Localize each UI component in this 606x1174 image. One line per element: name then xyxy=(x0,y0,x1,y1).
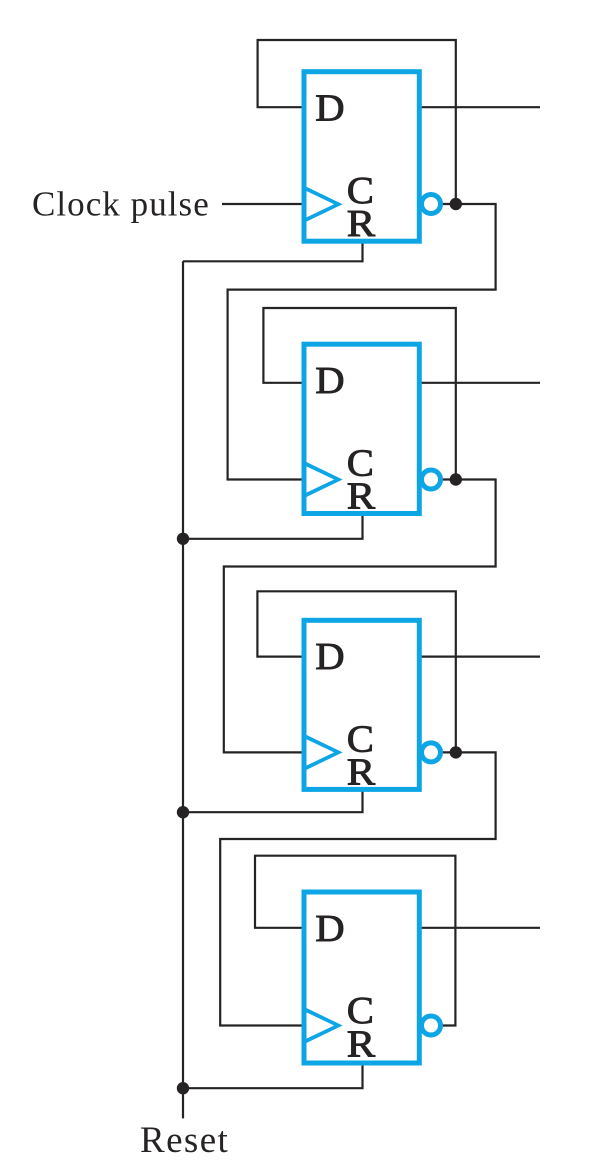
U4 Qbar inversion bubble xyxy=(422,1016,441,1035)
D flip-flop U1 xyxy=(302,72,441,245)
wire: U1 Q output xyxy=(419,106,540,108)
node: U2 Qbar junction xyxy=(450,473,462,485)
node: reset rail junction at U3 xyxy=(177,806,189,818)
node: reset rail junction at U4 xyxy=(177,1082,189,1094)
wire: U4 R pin down and left to reset rail xyxy=(183,1063,363,1088)
svg-text:R: R xyxy=(347,475,375,517)
wire: U3 Q output xyxy=(419,655,540,657)
wire: U4 Qbar feedback loop to U4 D input xyxy=(255,856,455,1026)
svg-text:Clock pulse: Clock pulse xyxy=(32,185,210,224)
U2 Qbar inversion bubble xyxy=(422,470,441,489)
U2 body xyxy=(304,344,419,513)
U1 clock edge triangle xyxy=(302,185,343,224)
wire: U3 Qbar bubble to node, clock chain to U4 clock xyxy=(220,752,495,1025)
D flip-flop U3 xyxy=(302,620,441,793)
node: reset rail junction at U2 xyxy=(177,533,189,545)
svg-text:R: R xyxy=(347,202,375,244)
svg-text:D: D xyxy=(315,635,344,677)
wire: U2 Qbar bubble to node, clock chain to U3 clock xyxy=(224,480,496,753)
U3 body xyxy=(304,620,419,789)
wire: U3 R pin down and left to reset rail xyxy=(183,789,363,812)
wire: reset rail xyxy=(182,261,184,1118)
U3 Qbar inversion bubble xyxy=(422,743,441,762)
wire: U1 Qbar bubble to node, clock chain to U2 clock xyxy=(228,204,496,480)
wire: U4 Q output xyxy=(419,927,540,929)
U1 body xyxy=(304,72,419,242)
wire: U2 R pin down and left to reset rail xyxy=(183,514,363,539)
wire: U2 Q output xyxy=(419,382,540,384)
svg-text:R: R xyxy=(347,751,375,793)
U1 Qbar inversion bubble xyxy=(422,195,441,214)
svg-text:R: R xyxy=(347,1022,375,1064)
wire: U3 Qbar feedback loop to U3 D input xyxy=(257,591,455,752)
wire: U1 R pin down and left to reset rail xyxy=(183,241,363,261)
U4 body xyxy=(304,892,419,1063)
node: U3 Qbar junction xyxy=(450,746,462,758)
D flip-flop U2 xyxy=(302,344,441,517)
svg-text:D: D xyxy=(315,359,344,401)
svg-text:Reset: Reset xyxy=(140,1120,229,1161)
wire: U2 Qbar feedback loop to U2 D input xyxy=(263,308,455,480)
wire: U1 Qbar feedback loop to U1 D input xyxy=(258,40,456,204)
svg-text:D: D xyxy=(315,87,344,129)
U3 clock edge triangle xyxy=(302,733,343,772)
wire: Clock pulse input to U1 clock pin xyxy=(222,203,304,205)
D flip-flop U4 xyxy=(302,892,441,1065)
U2 clock edge triangle xyxy=(302,460,343,499)
U4 clock edge triangle xyxy=(302,1006,343,1045)
svg-text:D: D xyxy=(315,907,344,949)
node: U1 Qbar junction xyxy=(450,198,462,210)
